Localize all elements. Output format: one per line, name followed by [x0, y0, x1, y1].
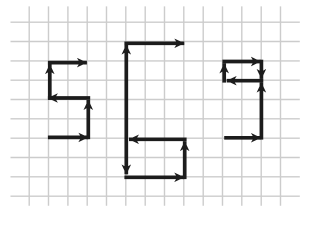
figure 2 bottom arrow east — [124, 175, 184, 179]
figure 1 right arrow north — [86, 100, 90, 139]
figure 2 middle arrow west — [129, 137, 187, 141]
figure 3 bottom arrow east — [224, 136, 261, 140]
figure 2 left arrow south — [124, 100, 128, 174]
figure 3 right long arrow north — [260, 83, 264, 140]
figure 3 top arrow east — [222, 60, 260, 64]
figure 2 left arrow north — [124, 45, 128, 100]
figure 3 left arrow north — [222, 63, 226, 82]
figure 3 middle arrow west — [227, 79, 264, 83]
figure 3 upper right arrow south — [260, 60, 264, 79]
figure 1 middle arrow west — [48, 96, 90, 100]
figure 1 top arrow east — [48, 61, 87, 65]
figure 2 right arrow north — [183, 141, 187, 179]
figure 2 top arrow east — [124, 41, 184, 45]
figure 1 bottom arrow east — [48, 136, 88, 140]
background grid paper — [11, 6, 300, 205]
figure 1 left arrow north — [48, 64, 52, 100]
